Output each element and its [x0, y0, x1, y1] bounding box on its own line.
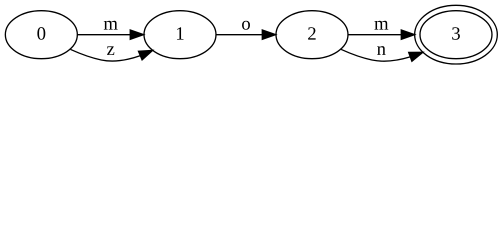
edge 2 to 3 with arrowhead, transition label m	[348, 21, 414, 40]
state node 0 (ellipse)	[5, 11, 77, 59]
state node 1 (ellipse)	[144, 11, 216, 59]
edge 0 to 1 with arrowhead, transition label z	[71, 46, 153, 61]
accepting state node 3 (double ellipse)	[415, 5, 498, 64]
edge 2 to 3 with arrowhead, transition label n	[341, 46, 423, 61]
edge 1 to 2 with arrowhead, transition label o	[216, 21, 275, 40]
edge 0 to 1 with arrowhead, transition label m	[77, 21, 143, 40]
state node 2 (ellipse)	[276, 11, 348, 59]
finite-state automaton diagram (graphviz style)	[0, 0, 503, 69]
